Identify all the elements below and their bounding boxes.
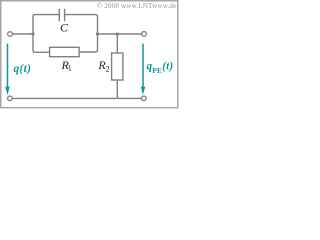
wire right mid — [98, 33, 142, 35]
terminal top-right — [142, 32, 147, 37]
wire capacitor right to down right vertical — [65, 15, 98, 52]
capacitor C1 plates — [59, 9, 64, 21]
svg-text:C: C — [60, 20, 69, 34]
terminal bottom-left — [8, 96, 13, 101]
terminal top-left — [8, 32, 13, 37]
node junction B — [96, 32, 99, 35]
svg-text:2: 2 — [106, 65, 110, 74]
resistor R2 — [112, 53, 123, 80]
wire R2 top lead — [116, 34, 118, 53]
wire left-up loop to capacitor left — [33, 15, 59, 53]
arrow qPE(t) right — [142, 44, 144, 88]
terminal bottom-right — [142, 96, 147, 101]
svg-text:qPE(t): qPE(t) — [147, 61, 174, 75]
wire R2 bottom lead — [116, 80, 118, 98]
resistor R1 — [50, 47, 80, 56]
node junction A — [31, 32, 34, 35]
frame — [1, 1, 178, 108]
arrow q(t) left — [7, 44, 9, 88]
svg-text:© 2008 www.LNTwww.de: © 2008 www.LNTwww.de — [97, 2, 176, 10]
wire bottom — [12, 97, 141, 99]
wire left input — [12, 33, 33, 35]
svg-text:q(t): q(t) — [14, 63, 32, 75]
svg-text:1: 1 — [68, 63, 72, 72]
node junction R2 top — [116, 32, 119, 35]
